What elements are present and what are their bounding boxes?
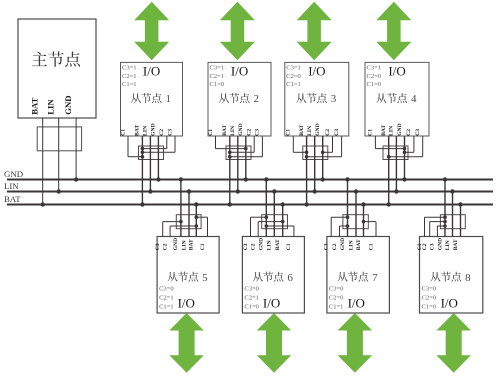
slave 5 coding wire p1 bbox=[162, 222, 164, 237]
svg-text:BAT: BAT bbox=[453, 239, 459, 250]
svg-text:I/O: I/O bbox=[348, 296, 365, 311]
svg-text:I/O: I/O bbox=[231, 63, 248, 78]
slave 6 LIN wire bbox=[273, 192, 275, 237]
slave 3 C2 coding wire bbox=[332, 136, 334, 152]
svg-text:C1: C1 bbox=[286, 129, 292, 136]
svg-text:BAT: BAT bbox=[299, 124, 305, 135]
svg-text:C1: C1 bbox=[208, 129, 214, 136]
svg-text:GND: GND bbox=[397, 123, 403, 135]
slave 3 LIN wire bbox=[314, 136, 316, 192]
slave 6 bus junction dots bbox=[264, 177, 268, 181]
svg-text:I/O: I/O bbox=[441, 296, 458, 311]
slave 6 coding wire p2 bbox=[257, 222, 259, 237]
svg-text:BAT: BAT bbox=[135, 124, 141, 135]
svg-text:LIN: LIN bbox=[389, 126, 395, 136]
slave 2 GND wire bbox=[245, 136, 247, 180]
svg-text:C3: C3 bbox=[334, 129, 340, 136]
slave 5 bus junction dots bbox=[179, 177, 183, 181]
green arrow below slave 5 bbox=[169, 313, 204, 373]
slave 1 C3 coding wire bbox=[174, 136, 176, 152]
green arrow below slave 7 bbox=[338, 313, 373, 373]
slave 2 title bbox=[219, 93, 250, 103]
green arrow above slave 4 bbox=[376, 2, 411, 61]
green arrow above slave 3 bbox=[297, 2, 332, 61]
master title 主节点 bbox=[32, 51, 80, 66]
svg-text:C2: C2 bbox=[332, 243, 338, 250]
green arrow below slave 6 bbox=[257, 313, 291, 373]
bus line BAT bbox=[7, 204, 493, 206]
svg-text:GND: GND bbox=[259, 238, 265, 250]
svg-text:C2: C2 bbox=[422, 243, 428, 250]
svg-text:I/O: I/O bbox=[388, 63, 405, 78]
slave 8 bus junction dots bbox=[443, 177, 447, 181]
green arrow above slave 1 bbox=[134, 2, 169, 61]
svg-text:C3: C3 bbox=[167, 129, 173, 136]
svg-text:C3=0: C3=0 bbox=[244, 286, 259, 293]
svg-text:BAT: BAT bbox=[275, 239, 281, 250]
slave 4 C1 coding wire bbox=[374, 136, 376, 149]
slave 1 BAT wire bbox=[141, 136, 143, 205]
slave 5 coding wire p2 bbox=[169, 226, 171, 237]
svg-text:6: 6 bbox=[287, 272, 293, 284]
svg-text:3: 3 bbox=[331, 93, 337, 105]
svg-text:BAT: BAT bbox=[29, 97, 39, 114]
svg-text:C2: C2 bbox=[325, 129, 331, 136]
slave 4 title bbox=[376, 93, 407, 103]
svg-text:GND: GND bbox=[4, 169, 23, 179]
slave 2 C2 coding wire bbox=[253, 136, 255, 152]
svg-text:LIN: LIN bbox=[348, 240, 354, 250]
svg-text:GND: GND bbox=[151, 123, 157, 135]
master junction dots bbox=[41, 202, 45, 206]
slave 2 BAT wire bbox=[229, 136, 231, 205]
svg-text:C1=0: C1=0 bbox=[367, 81, 382, 88]
slave 4 bus junction dots bbox=[387, 202, 391, 206]
slave 3 bus junction dots bbox=[304, 202, 308, 206]
svg-text:C1=0: C1=0 bbox=[422, 304, 437, 311]
svg-text:7: 7 bbox=[372, 272, 378, 284]
svg-text:C3=0: C3=0 bbox=[329, 286, 344, 293]
slave 6 GND wire bbox=[265, 180, 267, 237]
svg-text:C1: C1 bbox=[368, 129, 374, 136]
slave 4 C2 coding wire bbox=[413, 136, 415, 152]
svg-text:BAT: BAT bbox=[4, 194, 21, 204]
svg-text:C2=0: C2=0 bbox=[422, 295, 437, 302]
slave 2 bus junction dots bbox=[228, 202, 232, 206]
slave 5 BAT wire bbox=[195, 205, 197, 237]
svg-text:I/O: I/O bbox=[263, 296, 280, 311]
slave 1 C2 coding wire bbox=[166, 136, 168, 149]
svg-text:C1: C1 bbox=[120, 129, 126, 136]
svg-text:C1=1: C1=1 bbox=[122, 81, 137, 88]
svg-text:C1: C1 bbox=[368, 243, 374, 250]
svg-text:C2: C2 bbox=[159, 129, 165, 136]
master connector bbox=[37, 127, 81, 151]
svg-text:GND: GND bbox=[340, 238, 346, 250]
svg-text:C1=0: C1=0 bbox=[244, 304, 259, 311]
svg-text:C3=1: C3=1 bbox=[122, 65, 137, 72]
svg-text:C3=1: C3=1 bbox=[210, 65, 225, 72]
slave 3 C1 coding wire bbox=[292, 136, 294, 152]
svg-text:C1=0: C1=0 bbox=[210, 81, 225, 88]
slave 2 C3 coding wire bbox=[261, 136, 263, 157]
svg-text:GND: GND bbox=[238, 123, 244, 135]
slave 1 title bbox=[131, 93, 162, 103]
master node box 主节点 bbox=[18, 19, 96, 118]
slave 6 title bbox=[253, 272, 284, 282]
slave 4 GND wire bbox=[404, 136, 406, 180]
slave 8 coding wire p6 bbox=[436, 226, 438, 237]
svg-text:LIN: LIN bbox=[143, 126, 149, 136]
svg-text:C1=1: C1=1 bbox=[329, 304, 344, 311]
slave 8 GND wire bbox=[444, 180, 446, 237]
svg-text:C2=1: C2=1 bbox=[210, 73, 225, 80]
green arrow below slave 8 bbox=[436, 313, 471, 373]
svg-text:C1=1: C1=1 bbox=[286, 81, 301, 88]
slave 7 GND wire bbox=[347, 180, 349, 237]
svg-text:BAT: BAT bbox=[189, 239, 195, 250]
svg-text:C3=0: C3=0 bbox=[422, 286, 437, 293]
slave 8 LIN wire bbox=[452, 192, 454, 237]
svg-text:C3: C3 bbox=[255, 129, 261, 136]
slave 1 connector bbox=[139, 146, 164, 160]
svg-text:4: 4 bbox=[411, 93, 417, 105]
slave 7 coding wire p2 bbox=[339, 226, 341, 237]
svg-text:1: 1 bbox=[166, 93, 172, 105]
svg-text:C3=1: C3=1 bbox=[367, 65, 382, 72]
slave 8 connector bbox=[440, 215, 465, 229]
svg-text:I/O: I/O bbox=[143, 63, 160, 78]
svg-text:C3: C3 bbox=[430, 243, 436, 250]
slave node 5 box 从节点5 bbox=[157, 237, 219, 314]
svg-text:C2=0: C2=0 bbox=[286, 73, 301, 80]
slave node 3 box 从节点3 bbox=[285, 62, 349, 136]
slave 4 C3 coding wire bbox=[422, 136, 424, 157]
svg-text:I/O: I/O bbox=[178, 296, 195, 311]
slave 4 connector bbox=[383, 146, 408, 160]
slave node 4 box 从节点4 bbox=[365, 62, 429, 136]
svg-text:C1: C1 bbox=[200, 243, 206, 250]
slave 5 GND wire bbox=[180, 180, 182, 237]
slave 8 BAT wire bbox=[460, 205, 462, 237]
svg-text:BAT: BAT bbox=[381, 124, 387, 135]
svg-text:GND: GND bbox=[173, 238, 179, 250]
slave 2 LIN wire bbox=[237, 136, 239, 192]
svg-text:BAT: BAT bbox=[356, 239, 362, 250]
svg-text:LIN: LIN bbox=[445, 240, 451, 250]
slave 6 coding wire p6 bbox=[293, 226, 295, 237]
slave 5 coding wire p6 bbox=[207, 217, 209, 236]
slave 1 bus junction dots bbox=[140, 202, 144, 206]
svg-text:BAT: BAT bbox=[222, 124, 228, 135]
svg-text:GND: GND bbox=[437, 238, 443, 250]
svg-text:LIN: LIN bbox=[4, 181, 19, 191]
slave 7 connector bbox=[343, 215, 368, 229]
svg-text:C2=0: C2=0 bbox=[329, 295, 344, 302]
slave 3 BAT wire bbox=[306, 136, 308, 205]
slave 7 BAT wire bbox=[363, 205, 365, 237]
slave 3 GND wire bbox=[322, 136, 324, 180]
slave 1 GND wire bbox=[157, 136, 159, 180]
svg-text:GND: GND bbox=[63, 95, 73, 114]
svg-text:LIN: LIN bbox=[267, 240, 273, 250]
slave 4 BAT wire bbox=[388, 136, 390, 205]
slave 5 LIN wire bbox=[188, 192, 190, 237]
svg-text:C2: C2 bbox=[247, 129, 253, 136]
slave 6 coding wire p1 bbox=[250, 217, 252, 236]
svg-text:C2: C2 bbox=[406, 129, 412, 136]
slave 7 coding wire p1 bbox=[330, 217, 332, 236]
svg-text:I/O: I/O bbox=[308, 63, 325, 78]
bus line LIN bbox=[7, 191, 493, 193]
svg-text:C3=0: C3=0 bbox=[159, 286, 174, 293]
svg-text:GND: GND bbox=[315, 123, 321, 135]
slave 4 LIN wire bbox=[395, 136, 397, 192]
master LIN wire bbox=[58, 118, 60, 192]
slave node 6 box 从节点6 bbox=[242, 237, 304, 314]
slave 7 title bbox=[337, 272, 368, 282]
bus line GND bbox=[7, 179, 493, 181]
master GND wire bbox=[75, 118, 77, 180]
svg-text:5: 5 bbox=[202, 272, 208, 284]
slave 8 title bbox=[430, 272, 461, 282]
slave 7 LIN wire bbox=[355, 192, 357, 237]
svg-text:C2=0: C2=0 bbox=[367, 73, 382, 80]
slave 6 BAT wire bbox=[282, 205, 284, 237]
slave node 7 box 从节点7 bbox=[327, 237, 390, 314]
slave 7 bus junction dots bbox=[345, 177, 349, 181]
svg-text:C1=1: C1=1 bbox=[159, 304, 174, 311]
slave node 8 box 从节点8 bbox=[420, 237, 483, 314]
svg-text:C2=1: C2=1 bbox=[159, 295, 174, 302]
svg-text:C3: C3 bbox=[243, 243, 249, 250]
slave 5 title bbox=[167, 272, 198, 282]
svg-text:C3=1: C3=1 bbox=[286, 65, 301, 72]
slave 5 connector bbox=[176, 215, 201, 229]
slave 6 connector bbox=[262, 215, 288, 229]
slave 3 title bbox=[296, 93, 327, 103]
slave 3 C3 coding wire bbox=[341, 136, 343, 157]
svg-text:LIN: LIN bbox=[45, 99, 55, 115]
svg-text:2: 2 bbox=[254, 93, 260, 105]
svg-text:C3: C3 bbox=[415, 129, 421, 136]
svg-text:C3: C3 bbox=[324, 243, 330, 250]
svg-text:LIN: LIN bbox=[181, 240, 187, 250]
slave 8 coding wire p1 bbox=[424, 217, 426, 236]
master BAT wire bbox=[42, 118, 44, 205]
svg-text:LIN: LIN bbox=[230, 126, 236, 136]
svg-text:C2=1: C2=1 bbox=[122, 73, 137, 80]
slave node 2 box 从节点2 bbox=[208, 62, 271, 136]
slave 1 C1 coding wire bbox=[127, 136, 129, 157]
green arrow above slave 2 bbox=[220, 2, 255, 61]
slave 3 connector bbox=[303, 146, 328, 160]
svg-text:8: 8 bbox=[465, 272, 471, 284]
slave node 1 box 从节点1 bbox=[121, 62, 183, 136]
svg-text:C2: C2 bbox=[162, 243, 168, 250]
svg-text:C3: C3 bbox=[155, 243, 161, 250]
svg-text:LIN: LIN bbox=[307, 126, 313, 136]
svg-text:C1: C1 bbox=[286, 243, 292, 250]
svg-text:C2: C2 bbox=[251, 243, 257, 250]
slave 7 coding wire p6 bbox=[375, 222, 377, 237]
slave 2 connector bbox=[226, 146, 251, 160]
svg-text:C2=1: C2=1 bbox=[244, 295, 259, 302]
slave 2 C1 coding wire bbox=[215, 136, 217, 149]
slave 8 coding wire p2 bbox=[429, 222, 431, 237]
slave 1 LIN wire bbox=[149, 136, 151, 192]
